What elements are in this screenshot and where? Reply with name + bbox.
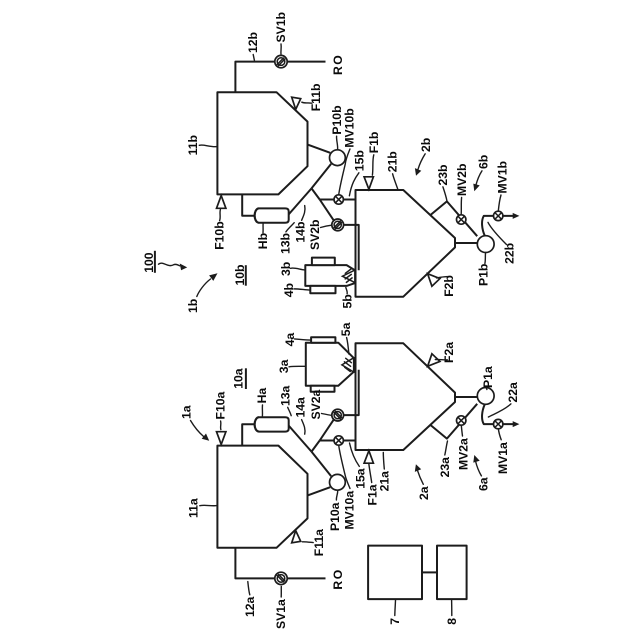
label 3b	[279, 262, 305, 276]
svg-text:23a: 23a	[438, 457, 452, 478]
svg-text:Ha: Ha	[255, 388, 269, 404]
label 15b	[349, 150, 366, 196]
wire: tank 11b nozzle to pump P10b	[308, 145, 331, 153]
controller box 7	[368, 546, 422, 600]
feed valve 5a	[342, 358, 354, 373]
svg-text:8: 8	[445, 618, 459, 625]
svg-text:P10a: P10a	[328, 502, 342, 531]
svg-text:21b: 21b	[385, 151, 399, 172]
label F1b	[367, 132, 381, 176]
svg-text:11b: 11b	[186, 135, 200, 155]
svg-text:MV2b: MV2b	[455, 163, 469, 196]
svg-text:1b: 1b	[186, 299, 200, 313]
a-system piping (mirror of b-system)	[217, 343, 520, 584]
svg-text:F1b: F1b	[367, 132, 381, 154]
svg-text:10b: 10b	[233, 264, 247, 285]
svg-text:12a: 12a	[243, 596, 257, 617]
label 11b	[186, 135, 217, 155]
label 10a	[232, 368, 246, 389]
svg-text:MV1a: MV1a	[496, 442, 510, 474]
svg-text:MV10b: MV10b	[343, 108, 357, 147]
wire: line 15b junction B through MV10b to tank 21b	[320, 199, 356, 201]
wire: SV2b stub into tank 21b and inner dip tube	[343, 225, 359, 270]
svg-text:14b: 14b	[294, 222, 308, 243]
label 4a	[283, 333, 310, 347]
wire: junction A to pump P10b tail	[312, 164, 332, 189]
label Ha	[255, 388, 269, 417]
svg-text:6a: 6a	[477, 477, 491, 491]
wire: drain line 23b from hopper wall through MV2b to pump P1b	[431, 201, 478, 236]
svg-text:23b: 23b	[436, 164, 450, 185]
svg-text:Hb: Hb	[256, 233, 270, 249]
svg-text:F11a: F11a	[312, 529, 326, 556]
valve 5a hatching	[344, 358, 351, 371]
label 1b	[186, 273, 217, 313]
label MV1a	[496, 429, 510, 474]
svg-text:21a: 21a	[378, 471, 392, 492]
svg-text:7: 7	[388, 618, 402, 625]
wire: junction A to junction B	[312, 188, 320, 199]
label P1a	[481, 366, 495, 389]
feeder flange 4b upper	[312, 258, 335, 266]
svg-text:SV2b: SV2b	[308, 220, 322, 250]
tank 11b	[217, 92, 307, 194]
svg-text:6b: 6b	[477, 155, 491, 169]
wire: RO supply line 12b	[235, 62, 325, 93]
wire: Hb end ellipse	[255, 208, 259, 222]
svg-text:F11b: F11b	[309, 84, 323, 112]
label Hb	[256, 224, 270, 250]
label MV2a	[457, 425, 471, 470]
label P1b	[477, 253, 491, 286]
label 1a	[180, 405, 210, 441]
label MV10a	[339, 446, 357, 530]
svg-text:11a: 11a	[187, 498, 201, 518]
wire: line 13b from Hb to junction A	[289, 188, 312, 214]
svg-text:2a: 2a	[417, 486, 431, 500]
label 21b	[385, 151, 399, 189]
svg-text:MV2a: MV2a	[457, 438, 471, 470]
label 5b	[341, 288, 355, 309]
wire: box 7 to box 8	[422, 571, 437, 573]
label SV2a	[309, 389, 332, 419]
feeder unit 3a body	[306, 343, 354, 386]
svg-text:10a: 10a	[232, 368, 246, 389]
label 10b	[233, 264, 247, 285]
label 100	[142, 251, 187, 273]
pump P1b	[477, 236, 494, 253]
valve SV2b	[332, 219, 344, 231]
label P10a	[328, 491, 342, 531]
valve SV1b	[275, 55, 287, 67]
svg-text:12b: 12b	[246, 32, 260, 53]
heater Hb cylinder	[255, 208, 289, 222]
svg-text:SV1a: SV1a	[274, 599, 288, 629]
svg-text:14a: 14a	[294, 397, 308, 418]
label 12b	[246, 32, 260, 60]
valve MV10b	[334, 195, 343, 204]
feeder flange 4a lower	[311, 386, 335, 392]
svg-text:22a: 22a	[506, 382, 520, 403]
feeder unit 3b body	[305, 265, 355, 286]
svg-text:F10a: F10a	[214, 391, 228, 419]
label F2b	[437, 275, 456, 297]
label 2b	[415, 138, 433, 176]
arrow outlet b	[513, 213, 520, 219]
sensor F10b	[217, 196, 226, 209]
b-system piping group (also reused mirrored for a-system)	[217, 55, 520, 296]
feed valve 5b	[342, 270, 355, 283]
svg-text:RO: RO	[331, 54, 345, 75]
svg-text:5b: 5b	[341, 294, 355, 308]
svg-text:F10b: F10b	[213, 221, 227, 249]
label MV2b	[455, 163, 469, 214]
svg-text:MV1b: MV1b	[495, 161, 509, 194]
feeder flange 4a upper	[311, 337, 335, 342]
wire: hopper outlet to pump P1b	[455, 242, 477, 244]
sensor F11b	[292, 97, 301, 109]
label F1a	[365, 464, 379, 505]
label P10b	[330, 105, 344, 149]
valve MV1b	[494, 211, 503, 220]
label 11a	[187, 498, 217, 518]
svg-text:SV1b: SV1b	[274, 12, 288, 42]
svg-text:13a: 13a	[279, 385, 293, 406]
label MV1b	[495, 161, 509, 211]
svg-text:5a: 5a	[339, 322, 353, 336]
label 12a	[243, 582, 257, 617]
svg-text:2b: 2b	[419, 138, 433, 152]
label 6b	[473, 155, 490, 191]
label 23b	[436, 164, 450, 200]
wire: line 14b junction B to SV2b	[320, 200, 334, 221]
svg-text:MV10a: MV10a	[343, 491, 357, 530]
label 7	[388, 600, 402, 625]
svg-text:15b: 15b	[353, 150, 367, 171]
svg-text:100: 100	[142, 252, 156, 273]
sensor F2b	[428, 274, 440, 287]
valve 5b hatching	[345, 269, 352, 282]
label 4b	[282, 283, 309, 297]
wire: discharge line 22b with outlet arrow	[482, 216, 513, 236]
feeder flange 4b lower	[310, 286, 335, 293]
label F10a	[214, 391, 228, 429]
pump P10b	[330, 150, 346, 166]
svg-text:1a: 1a	[180, 405, 194, 419]
label 13b	[279, 223, 295, 254]
label 13a	[279, 385, 293, 415]
label 21a	[378, 453, 392, 492]
svg-text:F2b: F2b	[442, 275, 456, 297]
label 22b	[488, 222, 517, 264]
wire: tank 11b bottom outlet to heater Hb	[242, 194, 256, 215]
label 6a	[473, 455, 490, 491]
svg-text:P1b: P1b	[477, 264, 491, 286]
label F10b	[213, 210, 227, 250]
label F11b	[302, 84, 323, 112]
label 14b	[294, 206, 308, 243]
svg-text:4b: 4b	[282, 283, 296, 297]
label 8	[445, 600, 459, 625]
svg-text:22b: 22b	[503, 243, 517, 264]
label SV2b	[308, 220, 332, 250]
label F2a	[435, 342, 456, 363]
label 15a	[350, 443, 368, 489]
label 14a	[294, 397, 308, 434]
label MV10b	[339, 108, 357, 194]
controller box 8	[437, 546, 467, 600]
label 23a	[438, 441, 452, 477]
valve MV2b	[457, 215, 466, 224]
svg-text:13b: 13b	[279, 233, 293, 254]
tank 21b hopper	[356, 190, 456, 297]
label 3a	[277, 359, 305, 373]
sensor F1b	[364, 177, 373, 190]
label SV1b	[274, 12, 288, 54]
label 22a	[488, 382, 519, 417]
label F11a	[302, 529, 326, 556]
svg-text:P1a: P1a	[481, 366, 495, 388]
svg-text:RO: RO	[331, 568, 345, 589]
svg-text:SV2a: SV2a	[309, 389, 323, 419]
label 2a	[415, 464, 431, 500]
label 5a	[339, 322, 353, 354]
label SV1a	[274, 586, 288, 629]
